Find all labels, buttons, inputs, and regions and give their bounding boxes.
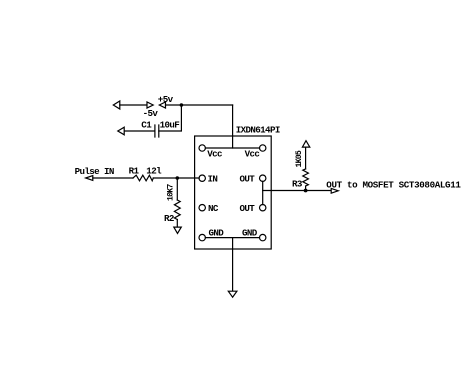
svg-text:10uF: 10uF — [160, 119, 180, 130]
wire R3 top — [305, 147, 307, 169]
resistor R3 — [303, 169, 309, 186]
capacitor C1 — [155, 125, 159, 137]
pin Vcc top-right — [260, 145, 266, 151]
wire GND drop — [232, 238, 234, 291]
port arrow P1 (top-left, -5v net) — [113, 101, 120, 109]
wire R2 to arrow — [176, 220, 178, 228]
node +5v junction — [180, 103, 184, 107]
wire C1 to port — [124, 130, 155, 132]
node R3 junction — [304, 189, 308, 193]
resistor R2 — [174, 200, 180, 220]
node R2 junction — [176, 176, 180, 180]
port arrow P3 (Pulse IN) — [86, 176, 93, 181]
wire OUT interconnect — [262, 181, 264, 204]
svg-text:-5v: -5v — [143, 108, 159, 119]
wire Pulse IN to R1 — [93, 177, 133, 179]
wire -5v — [120, 104, 147, 106]
svg-text:10K7: 10K7 — [166, 184, 175, 201]
pin IN — [199, 175, 205, 181]
svg-text:Pulse IN: Pulse IN — [75, 166, 114, 177]
svg-text:Vcc: Vcc — [245, 148, 260, 159]
svg-text:R1: R1 — [129, 166, 140, 177]
svg-text:12l: 12l — [146, 165, 162, 176]
svg-text:IXDN614PI: IXDN614PI — [236, 125, 280, 136]
wire GND interconnect — [205, 237, 259, 239]
svg-text:GND: GND — [209, 228, 225, 239]
resistor R1 — [133, 175, 153, 181]
svg-text:R2: R2 — [164, 213, 174, 224]
arrow R3 up — [302, 141, 309, 147]
svg-text:C1: C1 — [141, 119, 152, 130]
wire OUT — [263, 190, 332, 192]
pin Vcc top-left — [199, 145, 205, 151]
svg-text:1K05: 1K05 — [295, 150, 304, 167]
svg-text:NC: NC — [208, 203, 219, 214]
svg-text:+5v: +5v — [158, 94, 174, 105]
pin GND bottom-left — [199, 234, 205, 240]
pin GND bottom-right — [260, 234, 266, 240]
svg-text:OUT: OUT — [240, 173, 256, 184]
ground arrow — [228, 291, 237, 297]
wire R3 bottom — [305, 186, 307, 191]
port arrow P2 (C1 left) — [118, 127, 124, 135]
wire R1 to IN pin — [153, 177, 199, 179]
arrow +5v (left-pointing) — [159, 102, 165, 108]
arrow R2 down — [174, 227, 182, 233]
arrow OUT right — [331, 188, 338, 193]
wire +5v — [166, 104, 233, 106]
wire Vcc interconnect — [205, 147, 259, 149]
wire junction to R2 — [176, 178, 178, 200]
svg-text:R3: R3 — [292, 179, 303, 190]
svg-text:OUT: OUT — [240, 203, 256, 214]
wire +5v drop — [232, 105, 234, 148]
arrow -5v (right-pointing) — [147, 102, 153, 108]
pin OUT upper — [260, 175, 266, 181]
wire junction to C1 — [159, 105, 182, 131]
svg-text:OUT to MOSFET SCT3080ALG11: OUT to MOSFET SCT3080ALG11 — [326, 179, 461, 190]
svg-text:IN: IN — [208, 173, 218, 184]
pin OUT lower — [260, 205, 266, 211]
svg-text:Vcc: Vcc — [207, 148, 222, 159]
svg-text:GND: GND — [242, 228, 258, 239]
pin NC — [199, 205, 205, 211]
op-amp U1 IXDN614PI body — [195, 136, 272, 249]
